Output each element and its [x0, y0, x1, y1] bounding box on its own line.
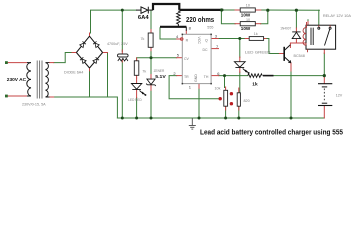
svg-text:BC548: BC548 — [294, 54, 305, 58]
svg-text:DC: DC — [203, 48, 209, 52]
svg-text:230V AC: 230V AC — [7, 77, 27, 83]
svg-text:10k: 10k — [215, 87, 221, 91]
svg-text:5.1V: 5.1V — [155, 74, 166, 80]
svg-text:10W: 10W — [241, 12, 251, 17]
svg-text:7k: 7k — [142, 69, 146, 73]
svg-text:Lead acid battery controlled c: Lead acid battery controlled charger usi… — [200, 130, 343, 137]
svg-text:12V: 12V — [336, 93, 343, 97]
svg-text:7k: 7k — [141, 37, 145, 41]
svg-text:CV: CV — [184, 57, 190, 61]
svg-text:1k: 1k — [254, 32, 258, 36]
svg-text:RELAY 12V 10A: RELAY 12V 10A — [323, 14, 352, 18]
svg-text:TH: TH — [204, 75, 209, 79]
svg-text:VCC: VCC — [197, 37, 201, 45]
svg-text:1N4007: 1N4007 — [280, 27, 291, 31]
svg-text:10: 10 — [246, 3, 250, 7]
svg-text:TR: TR — [184, 75, 189, 79]
svg-text:GND: GND — [194, 74, 198, 82]
svg-text:220 ohms: 220 ohms — [186, 15, 214, 24]
svg-text:DIODE 6A4: DIODE 6A4 — [64, 71, 83, 75]
svg-text:4700uF, 25V: 4700uF, 25V — [107, 42, 128, 46]
svg-text:10: 10 — [246, 18, 250, 22]
svg-text:LED RED: LED RED — [128, 97, 141, 102]
svg-text:10W: 10W — [241, 26, 251, 31]
svg-text:820: 820 — [244, 99, 250, 103]
svg-text:555: 555 — [207, 25, 213, 29]
svg-text:6A4: 6A4 — [138, 15, 149, 21]
svg-text:Q: Q — [205, 39, 208, 43]
svg-text:LED GREEN: LED GREEN — [245, 49, 271, 54]
svg-text:1k: 1k — [252, 81, 258, 87]
svg-text:ZENER: ZENER — [154, 69, 165, 73]
svg-text:230V/0-15, 5A: 230V/0-15, 5A — [22, 103, 46, 107]
